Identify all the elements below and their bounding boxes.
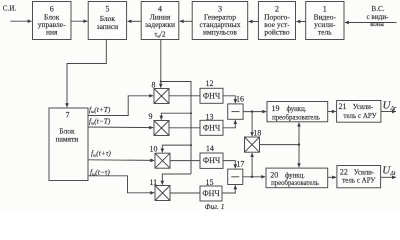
svg-text:15: 15 (206, 178, 214, 187)
block 1 text (314, 5, 337, 37)
filter U15 ФНЧ (200, 186, 222, 201)
svg-text:Усили-: Усили- (353, 103, 374, 111)
junction dot subtractor17 out (251, 176, 253, 178)
svg-text:С.И.: С.И. (3, 5, 17, 13)
svg-text:19: 19 (272, 104, 280, 113)
wire branch into multiplier9 top (161, 113, 191, 120)
wire ФНЧ13 to subtractor16 bottom (223, 120, 235, 128)
block 19 функц. преобразователь (267, 102, 328, 122)
svg-text:τи/2: τи/2 (154, 29, 166, 38)
multiplier 8 (154, 89, 169, 104)
svg-text:ФНЧ: ФНЧ (203, 156, 220, 165)
svg-text:памяти: памяти (56, 135, 79, 144)
svg-text:fш(t+T): fш(t+T) (89, 105, 111, 114)
wire block20 to block22 (328, 176, 336, 178)
wire f(t-T) from block7 to multiplier9 (88, 126, 153, 129)
svg-text:преобразователь: преобразователь (272, 114, 320, 121)
svg-text:кона: кона (370, 20, 385, 28)
multiplier 9 (154, 121, 169, 136)
svg-text:9: 9 (149, 112, 153, 121)
junction dot subtractor16 out (251, 110, 253, 112)
svg-text:11: 11 (149, 178, 157, 187)
block 6 text (38, 5, 66, 37)
wire block22 output (381, 176, 396, 178)
svg-text:тель с АРУ: тель с АРУ (343, 112, 376, 120)
block 3 text (200, 5, 241, 37)
wire ФНЧ12 to subtractor16 top (223, 96, 235, 103)
wire f(t+T) from block7 to multiplier8 (88, 96, 153, 116)
svg-text:fш(t−T): fш(t−T) (89, 117, 111, 126)
junction dot distribution (160, 81, 162, 83)
wire junction up to multiplier18 bottom (251, 153, 253, 177)
wire multiplier8 to ФНЧ12 (169, 95, 200, 97)
wire block5 down to block7 (67, 40, 106, 108)
subtractor 17 (228, 169, 243, 184)
svg-text:fш(t+τ): fш(t+τ) (91, 149, 111, 158)
wire block1 to block2 (296, 21, 305, 23)
wire multiplier9 to ФНЧ13 (169, 127, 200, 129)
wire branch into multiplier10 top (162, 145, 191, 152)
wire multiplier10 to ФНЧ14 (170, 160, 200, 162)
svg-text:ФНЧ: ФНЧ (203, 124, 220, 133)
svg-text:7: 7 (66, 111, 70, 120)
block 4 text (145, 5, 175, 39)
wire block21 output (381, 111, 396, 113)
svg-text:10: 10 (150, 145, 158, 154)
block 20 функц. преобразователь (266, 168, 328, 188)
wire f(t+tau) from block7 to multiplier10 (88, 159, 154, 162)
svg-text:ройство: ройство (264, 28, 290, 37)
wire ВС input into block1 (345, 22, 397, 24)
svg-text:записи: записи (97, 22, 119, 31)
block 21 Усилитель с АРУ (337, 101, 381, 123)
svg-text:задержки: задержки (145, 20, 175, 29)
svg-text:5: 5 (105, 5, 109, 14)
svg-text:UΔt: UΔt (382, 164, 395, 177)
block 22 Усилитель с АРУ (337, 166, 381, 188)
wire subtractor16 to block19 (243, 111, 266, 113)
svg-text:В.С.: В.С. (371, 5, 384, 13)
svg-text:функц.: функц. (287, 106, 307, 113)
svg-text:16: 16 (236, 95, 244, 104)
multiplier 10 (155, 153, 170, 168)
svg-text:22: 22 (340, 168, 348, 177)
multiplier 11 (155, 186, 170, 201)
subtractor 16 (228, 104, 243, 119)
svg-text:UΔr: UΔr (383, 99, 397, 112)
block 6 Блок управления (33, 2, 72, 40)
filter U14 ФНЧ (200, 153, 223, 168)
svg-text:ФНЧ: ФНЧ (203, 92, 220, 101)
svg-text:Усили-: Усили- (354, 169, 375, 177)
svg-text:ФНЧ: ФНЧ (202, 189, 219, 198)
wire block3 to block4 (180, 20, 193, 22)
svg-text:14: 14 (206, 144, 214, 153)
wire block4 to block5 (128, 20, 142, 22)
junction dot mult18 out (298, 143, 300, 145)
wire subtractor17 to block20 (243, 176, 265, 178)
wire block6 to block5 (71, 20, 87, 22)
svg-text:ния: ния (46, 28, 58, 37)
filter U13 ФНЧ (200, 120, 223, 135)
wire block19 to block21 (328, 111, 336, 113)
wire distribution branch right and down (161, 82, 191, 175)
wire multiplier18 output to vertical (260, 144, 300, 146)
wire f(t-tau) from block7 to multiplier11 (88, 176, 154, 193)
wire branch into multiplier11 top (162, 174, 191, 185)
block 2 text (264, 5, 290, 37)
wire vertical into block19 bottom (298, 123, 300, 145)
svg-text:12: 12 (206, 79, 214, 88)
wire multiplier11 to ФНЧ15 (170, 192, 200, 194)
wire block2 to block3 (249, 21, 259, 23)
svg-text:8: 8 (152, 81, 156, 90)
svg-text:13: 13 (206, 112, 214, 121)
svg-text:функц.: функц. (285, 172, 305, 179)
wire junction down to multiplier18 top (251, 112, 253, 137)
svg-text:Фиг. 1: Фиг. 1 (204, 202, 224, 211)
svg-text:20: 20 (270, 170, 278, 179)
junction dot branch9 (190, 112, 192, 114)
svg-text:18: 18 (253, 129, 261, 138)
block 7 text (56, 111, 79, 144)
block 7 Блок памяти (49, 108, 88, 181)
block 5 text (97, 5, 119, 31)
svg-text:преобразователь: преобразователь (271, 180, 319, 187)
block 3 Генератор стандартных импульсов (192, 2, 248, 40)
svg-text:импульсов: импульсов (203, 28, 237, 37)
block 1 Видеоусилитель (306, 2, 344, 40)
svg-text:21: 21 (339, 102, 347, 111)
wire ФНЧ15 to subtractor17 bottom (222, 185, 235, 193)
block 4 Линия задержки (141, 2, 179, 40)
multiplier 18 (245, 137, 260, 152)
block 2 Пороговое устройство (258, 2, 295, 40)
filter U12 ФНЧ (200, 88, 223, 103)
svg-text:тель: тель (318, 28, 332, 37)
wire СИ input arrow into block 6 (10, 20, 31, 22)
svg-text:fш(t−τ): fш(t−τ) (90, 167, 110, 176)
wire vertical into block20 top (298, 145, 300, 168)
svg-text:17: 17 (236, 159, 244, 168)
block 5 Блок записи (88, 2, 126, 40)
junction dot branch10 (190, 144, 192, 146)
wire ФНЧ14 to subtractor17 top (223, 161, 235, 169)
svg-text:тель с АРУ: тель с АРУ (342, 177, 375, 185)
wire block4 down to multiplier8 top (160, 40, 162, 88)
